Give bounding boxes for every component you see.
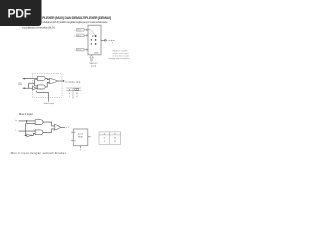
and gate B1 — [35, 120, 43, 125]
wire: input S — [23, 87, 33, 89]
svg-text:IN 1: IN 1 — [77, 35, 82, 37]
node contact row Dn — [91, 43, 97, 44]
svg-text:I1: I1 — [114, 141, 117, 143]
svg-text:a: a — [74, 30, 75, 32]
wire: Dn to mux — [84, 49, 88, 51]
select arrow into mux bottom — [90, 55, 94, 61]
node output dot — [63, 80, 64, 81]
not gate N1 — [33, 86, 37, 90]
or gate O1 — [49, 78, 58, 83]
svg-text:input: input — [18, 83, 22, 86]
svg-text:0: 0 — [104, 138, 106, 140]
pin S — [80, 146, 82, 149]
select label — [90, 63, 99, 67]
U2 label — [78, 133, 84, 139]
PDF badge — [0, 0, 42, 26]
circuit 1: dashed enclosure — [32, 74, 62, 98]
wire: mux output — [101, 39, 107, 41]
svg-text:I1: I1 — [76, 96, 79, 98]
wire: or output — [58, 80, 63, 82]
and gate B2 — [35, 130, 43, 135]
node junction I0 — [24, 78, 25, 79]
svg-text:sebagai output rangkaian: sebagai output rangkaian — [108, 57, 130, 60]
svg-text:n: n — [74, 50, 75, 52]
node contact row mid — [91, 39, 97, 40]
pin out — [88, 136, 91, 138]
svg-text:= Y: = Y — [66, 127, 70, 129]
not gate N2 — [27, 134, 31, 137]
svg-text:(mux): (mux) — [91, 65, 97, 67]
and gate A2 — [37, 85, 45, 89]
wire: D0 to mux — [84, 29, 88, 31]
wire: A1 to or — [45, 78, 49, 79]
svg-text:I0: I0 — [114, 138, 117, 140]
input box D1 — [74, 34, 84, 37]
svg-text:IN 0: IN 0 — [77, 30, 82, 32]
svg-text:Mux 2 input dengan sebuah Enab: Mux 2 input dengan sebuah Enabel. — [11, 151, 67, 155]
wire: or2 output — [61, 126, 65, 128]
node junction s — [25, 135, 26, 136]
wire: branch of a to lower A input — [27, 121, 36, 124]
node junction a — [26, 120, 27, 121]
wire: A2 to or — [45, 82, 49, 87]
block diagram: mux body U1 — [88, 25, 101, 55]
or gate O2 — [54, 125, 60, 130]
svg-text:MUX: MUX — [94, 53, 99, 55]
caption paragraph right of diagram — [108, 51, 130, 60]
svg-text:PDF: PDF — [7, 7, 31, 21]
svg-text:b: b — [74, 35, 75, 37]
circuit 1 input labels — [18, 81, 22, 86]
svg-text:I0: I0 — [76, 93, 79, 95]
svg-text:Y: Y — [112, 42, 114, 44]
svg-text:S: S — [80, 150, 82, 152]
svg-text:PLEXER (MUX) DAN DEMULTIPLEXER: PLEXER (MUX) DAN DEMULTIPLEXER (DEMUX) — [42, 16, 111, 20]
svg-text:Multiplexer (MUX) adalah rangk: Multiplexer (MUX) adalah rangkaian logik… — [43, 20, 109, 24]
svg-text:I0: I0 — [74, 132, 76, 134]
wire: B1 to or — [43, 122, 54, 126]
svg-text:I1: I1 — [74, 140, 76, 142]
wire: select dropper to not gate — [25, 123, 27, 135]
pin I0 — [71, 131, 73, 133]
svg-text:0: 0 — [69, 93, 71, 95]
wire: select run below — [37, 91, 49, 102]
node OUTPUT label — [108, 39, 115, 44]
svg-text:2-to-1: 2-to-1 — [78, 133, 84, 136]
input box D0 — [74, 29, 84, 32]
svg-text:1: 1 — [69, 96, 71, 98]
svg-text:Mux 2 input: Mux 2 input — [19, 112, 33, 116]
wire: c2 input b — [19, 130, 36, 132]
and gate A1 — [37, 76, 45, 80]
wire: selector arm diagonal inside mux — [88, 30, 95, 35]
wire: S riser to mid rail — [29, 83, 35, 88]
input box Dn — [74, 48, 84, 51]
wire: N2 out to B2 lower input — [32, 134, 36, 136]
wire: c2 input a — [19, 120, 36, 122]
svg-text:s: s — [15, 129, 16, 131]
svg-text:Select input: Select input — [44, 102, 55, 105]
wire: B2 to or — [43, 129, 54, 132]
svg-text:IN n: IN n — [77, 50, 82, 52]
svg-text:S: S — [69, 89, 71, 91]
node contact row D0 — [92, 35, 96, 37]
truth table 2 — [99, 132, 121, 144]
wire: D1 to mux — [84, 35, 88, 37]
wire: input I0 — [23, 78, 38, 80]
mux block U2 — [73, 129, 88, 146]
wire: rail feeding A1/A2 second inputs — [35, 80, 38, 86]
node junction S — [24, 88, 25, 89]
truth table 1 — [66, 88, 81, 99]
svg-text:F = I0.S + I1.S: F = I0.S + I1.S — [66, 81, 81, 84]
circuit 2 input labels — [15, 120, 17, 131]
svg-text:Io: Io — [15, 120, 17, 122]
pin I1 — [71, 139, 73, 141]
svg-text:1: 1 — [104, 141, 106, 143]
table 1 header F boxed — [75, 89, 79, 91]
svg-text:input data dan meneruskan (MUX: input data dan meneruskan (MUX). — [22, 25, 55, 29]
svg-text:MUX: MUX — [78, 136, 83, 138]
